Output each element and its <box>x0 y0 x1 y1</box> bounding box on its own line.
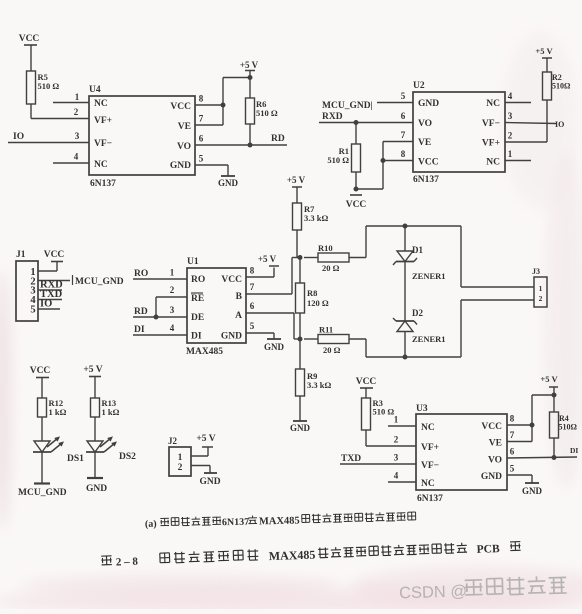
pin 2 wire U1 <box>156 285 187 317</box>
svg-text:+5 V: +5 V <box>287 175 306 185</box>
pin 2 wire U2 <box>505 100 547 142</box>
wire <box>249 124 251 145</box>
svg-text:U4: U4 <box>89 85 101 95</box>
svg-text:ZENER1: ZENER1 <box>412 334 446 344</box>
svg-text:VF+: VF+ <box>421 443 439 453</box>
svg-text:NC: NC <box>94 99 108 109</box>
svg-text:+5 V: +5 V <box>540 374 558 384</box>
wire <box>94 417 96 441</box>
svg-text:4: 4 <box>74 152 79 162</box>
svg-text:3: 3 <box>394 453 399 463</box>
svg-text:8: 8 <box>250 266 255 276</box>
svg-text:VO: VO <box>418 119 432 129</box>
svg-text:6: 6 <box>199 134 204 144</box>
caption (a) 采用高速光耦6N137的MAX485总线通信模块电路原理图 <box>145 512 416 530</box>
wire <box>299 313 301 339</box>
svg-text:5: 5 <box>30 305 35 316</box>
resistor R12 1kΩ <box>38 398 67 417</box>
svg-text:1: 1 <box>75 92 80 102</box>
svg-text:6N137: 6N137 <box>90 179 116 189</box>
junction <box>354 120 359 125</box>
svg-text:GND: GND <box>264 342 285 352</box>
node IO / pin 3 wire <box>8 131 89 143</box>
svg-text:NC: NC <box>421 479 435 489</box>
wire <box>532 395 554 442</box>
junction <box>248 143 253 148</box>
zener D1 <box>393 245 446 281</box>
power +5V (DS2) <box>83 365 102 377</box>
svg-text:RO: RO <box>191 275 205 285</box>
pin 1 stub U2 <box>505 149 531 161</box>
svg-text:2: 2 <box>170 285 175 295</box>
wire <box>41 417 43 441</box>
svg-text:DI: DI <box>134 325 145 335</box>
wire <box>223 78 250 126</box>
resistor R9 3.3kΩ <box>296 369 332 396</box>
svg-text:U1: U1 <box>187 257 199 267</box>
svg-text:7: 7 <box>510 430 515 440</box>
wire <box>94 377 96 399</box>
svg-text:J1: J1 <box>16 250 26 260</box>
node RXD / pin 3 wire J1 <box>38 280 63 291</box>
ground (U1) <box>264 339 285 352</box>
power VCC (below R1) <box>346 195 367 210</box>
pin 2 wire J2 <box>191 466 210 474</box>
wire <box>356 123 383 190</box>
pin 5 wire U4 <box>195 154 228 177</box>
resistor R2 510Ω <box>543 72 572 100</box>
svg-text:20 Ω: 20 Ω <box>323 345 341 355</box>
resistor R1 510Ω <box>327 144 360 172</box>
resistor R3 510Ω <box>362 398 395 430</box>
node RD / pin 6 wire U4 <box>195 134 287 146</box>
svg-text:4: 4 <box>394 471 399 481</box>
junction <box>403 355 408 360</box>
svg-text:R8: R8 <box>307 288 317 298</box>
resistor R6 510Ω <box>246 98 278 124</box>
svg-text:7: 7 <box>401 130 406 140</box>
svg-text:U3: U3 <box>416 404 428 414</box>
resistor R10 20Ω <box>318 243 349 273</box>
node MCU_GND / pin 5 wire U2 <box>322 91 413 111</box>
svg-text:5: 5 <box>250 321 255 331</box>
connector J3 <box>532 267 547 307</box>
wire <box>461 300 534 357</box>
svg-text:VF−: VF− <box>421 461 439 471</box>
pin 2 label U4 <box>74 107 79 117</box>
transceiver U1 MAX485 <box>186 257 246 357</box>
wire <box>366 226 461 258</box>
watermark CSDN @翼达口香糖 <box>399 575 567 602</box>
svg-text:B: B <box>236 292 243 302</box>
svg-text:510Ω: 510Ω <box>552 82 571 91</box>
resistor R5 510Ω <box>27 71 60 104</box>
svg-text:ZENER1: ZENER1 <box>412 271 446 281</box>
svg-text:3.3 kΩ: 3.3 kΩ <box>304 213 328 223</box>
svg-text:3: 3 <box>508 111 513 121</box>
wire <box>365 388 367 398</box>
wire <box>404 332 406 358</box>
junction <box>298 337 303 342</box>
power +5V (R7) <box>287 175 306 203</box>
svg-text:VCC: VCC <box>356 377 377 387</box>
svg-text:3: 3 <box>75 131 80 141</box>
junction <box>248 75 253 80</box>
wire <box>366 339 461 357</box>
power +5V (U4) <box>240 60 259 98</box>
svg-text:GND: GND <box>199 477 220 487</box>
svg-text:6N137: 6N137 <box>222 517 249 529</box>
wire <box>382 142 384 190</box>
svg-text:+5 V: +5 V <box>83 365 102 375</box>
node DI / pin 6 wire U3 <box>507 446 578 458</box>
svg-text:GND: GND <box>86 484 107 494</box>
svg-text:7: 7 <box>199 114 204 124</box>
node TXD / pin 3 wire U3 <box>340 453 416 465</box>
junction <box>354 187 359 192</box>
svg-text:1 kΩ: 1 kΩ <box>102 407 120 417</box>
pin 1 stub U3 <box>388 415 416 427</box>
svg-text:TXD: TXD <box>341 454 361 464</box>
svg-text:D2: D2 <box>412 308 423 318</box>
junction <box>552 393 557 398</box>
svg-text:MAX485: MAX485 <box>269 548 316 564</box>
power +5V (R2) <box>535 46 553 72</box>
svg-text:1: 1 <box>170 268 175 278</box>
svg-text:U2: U2 <box>413 81 425 91</box>
wire <box>299 339 301 369</box>
svg-text:RO: RO <box>134 269 148 279</box>
svg-text:3: 3 <box>170 305 175 315</box>
node IO / pin 5 wire J1 <box>38 299 60 310</box>
svg-text:IO: IO <box>555 120 564 129</box>
wire <box>553 438 555 458</box>
pin 7 wire U4 <box>195 114 223 126</box>
junction <box>403 224 408 229</box>
resistor R13 1kΩ <box>91 398 120 417</box>
LED DS1 <box>33 436 84 464</box>
pin 2 label U3 <box>394 435 399 445</box>
svg-text:1: 1 <box>394 415 399 425</box>
wire <box>30 45 32 71</box>
pin 4 stub U4 <box>53 152 89 164</box>
svg-text:IO: IO <box>13 132 24 142</box>
svg-text:510 Ω: 510 Ω <box>38 81 60 91</box>
svg-text:R11: R11 <box>319 325 333 335</box>
svg-text:+5 V: +5 V <box>535 46 553 56</box>
pin 6 wire U1 to bus A <box>246 301 300 339</box>
LED DS2 <box>86 436 136 462</box>
svg-text:NC: NC <box>94 160 108 170</box>
svg-text:VCC: VCC <box>221 275 242 285</box>
pin 8 wire U4 <box>195 94 223 106</box>
svg-text:GND: GND <box>170 161 191 171</box>
svg-text:1: 1 <box>539 284 543 293</box>
pin 1 wire J1 <box>38 262 57 271</box>
svg-text:VCC: VCC <box>481 422 502 432</box>
power VCC (R3) <box>356 377 377 388</box>
svg-text:VF+: VF+ <box>482 139 500 149</box>
svg-text:2: 2 <box>508 131 513 141</box>
junction <box>298 255 303 260</box>
svg-text:RD: RD <box>134 307 148 317</box>
ground (U3) <box>522 483 543 496</box>
svg-text:VE: VE <box>178 122 191 132</box>
pin 4 stub U2 <box>505 91 531 103</box>
pin 5 wire U3 <box>507 464 532 484</box>
pin 1 wire J2 <box>191 448 208 457</box>
wire <box>94 452 96 478</box>
svg-text:6: 6 <box>510 447 515 457</box>
svg-text:+5 V: +5 V <box>258 254 277 264</box>
svg-text:VF+: VF+ <box>94 116 112 126</box>
svg-text:5: 5 <box>401 91 406 101</box>
svg-text:(a): (a) <box>145 519 157 530</box>
svg-text:3.3 kΩ: 3.3 kΩ <box>307 380 331 390</box>
wire <box>41 452 43 483</box>
svg-text:J3: J3 <box>532 267 540 276</box>
junction <box>221 103 226 108</box>
svg-text:510 Ω: 510 Ω <box>256 108 278 118</box>
svg-text:5: 5 <box>199 154 204 164</box>
node RO / pin 1 wire U1 <box>133 268 187 280</box>
ground (DS2) <box>86 478 107 494</box>
wire <box>404 262 406 322</box>
wire <box>404 226 406 251</box>
svg-text:4: 4 <box>170 323 175 333</box>
svg-text:VE: VE <box>489 439 502 449</box>
wire <box>299 396 301 421</box>
svg-text:VCC: VCC <box>418 158 439 168</box>
svg-text:1: 1 <box>508 149 513 159</box>
svg-text:VCC: VCC <box>19 34 40 44</box>
svg-text:MCU_GND: MCU_GND <box>75 277 124 287</box>
svg-text:6: 6 <box>401 111 406 121</box>
svg-text:8: 8 <box>199 94 204 104</box>
pin 8 wire U1 <box>246 266 274 278</box>
svg-text:IO: IO <box>40 299 52 310</box>
power +5V (J2) <box>196 434 215 447</box>
svg-text:510 Ω: 510 Ω <box>327 155 349 165</box>
svg-text:7: 7 <box>250 282 255 292</box>
wire <box>461 226 534 287</box>
pin 7 wire U3 <box>507 430 532 442</box>
svg-text:VCC: VCC <box>346 200 367 210</box>
svg-text:PCB: PCB <box>476 543 500 556</box>
wire <box>41 378 43 399</box>
ground MCU_GND (DS1) <box>18 484 67 499</box>
power VCC (top-left) <box>19 34 40 45</box>
wire <box>304 338 366 340</box>
node RD / pin 3 wire U1 <box>133 305 187 317</box>
svg-text:MAX485: MAX485 <box>259 515 300 527</box>
svg-text:8: 8 <box>401 149 406 159</box>
svg-text:NC: NC <box>486 158 500 168</box>
svg-text:6N137: 6N137 <box>417 494 443 504</box>
ground (R9) <box>290 421 311 433</box>
pin 7 wire U1 to bus B <box>246 258 300 295</box>
junction <box>154 315 159 320</box>
connector J2 <box>168 436 191 476</box>
svg-text:5: 5 <box>510 464 515 474</box>
svg-text:2 – 8: 2 – 8 <box>116 556 139 569</box>
caption 图2-8 利用高速光耦的MAX485总线通信模块电路原理图和PCB图 <box>101 540 521 569</box>
junction <box>381 158 386 163</box>
node DI / pin 4 wire U1 <box>133 323 187 335</box>
svg-text:GND: GND <box>218 178 239 188</box>
svg-text:NC: NC <box>421 423 435 433</box>
svg-text:A: A <box>235 311 242 321</box>
svg-text:1: 1 <box>178 453 183 463</box>
svg-text:RXD: RXD <box>322 112 343 122</box>
svg-text:MCU_GND|: MCU_GND| <box>322 101 373 111</box>
svg-text:MCU_GND: MCU_GND <box>18 488 67 498</box>
power +5V (U3) <box>540 374 558 395</box>
svg-text:2: 2 <box>74 107 79 117</box>
svg-text:6: 6 <box>250 301 255 311</box>
svg-text:+5 V: +5 V <box>240 60 259 70</box>
pin 4 stub U3 <box>388 471 416 483</box>
svg-text:120 Ω: 120 Ω <box>307 298 329 308</box>
svg-text:DS2: DS2 <box>119 452 136 462</box>
svg-text:8: 8 <box>510 414 515 424</box>
svg-text:VO: VO <box>488 456 502 466</box>
resistor R8 120Ω <box>296 283 329 313</box>
svg-text:GND: GND <box>418 99 439 109</box>
wire <box>304 257 366 259</box>
optocoupler U2 6N137 <box>413 81 505 185</box>
node IO / pin 3 wire U2 <box>505 111 564 129</box>
svg-text:6N137: 6N137 <box>413 175 439 185</box>
svg-text:RE: RE <box>191 294 204 304</box>
svg-text:DE: DE <box>191 313 204 323</box>
svg-text:510Ω: 510Ω <box>559 423 578 432</box>
node RXD / pin 6 wire U2 <box>319 111 413 123</box>
svg-text:MAX485: MAX485 <box>186 347 223 357</box>
junction <box>552 455 557 460</box>
ground (J2) <box>199 473 220 487</box>
pin 7 wire U2 <box>383 130 413 142</box>
svg-text:2: 2 <box>539 294 543 303</box>
svg-text:VF−: VF− <box>482 119 500 129</box>
svg-text:GND: GND <box>290 423 311 433</box>
svg-text:D1: D1 <box>412 245 423 255</box>
optocoupler U3 6N137 <box>416 404 507 504</box>
svg-text:GND: GND <box>221 332 242 342</box>
resistor R7 3.3kΩ <box>293 203 329 230</box>
svg-text:GND: GND <box>481 472 502 482</box>
svg-text:GND: GND <box>522 486 543 496</box>
svg-text:R10: R10 <box>318 243 333 253</box>
svg-text:510 Ω: 510 Ω <box>373 407 395 417</box>
ground (U4) <box>218 176 239 188</box>
wire <box>297 230 300 257</box>
svg-text:4: 4 <box>508 91 513 101</box>
pin 8 wire U3 <box>507 414 532 426</box>
resistor R4 510Ω <box>550 412 578 438</box>
power VCC (DS1) <box>30 366 51 378</box>
power VCC (J1) <box>44 250 65 262</box>
resistor R11 20Ω <box>318 325 349 356</box>
svg-text:20 Ω: 20 Ω <box>322 263 340 273</box>
svg-text:2: 2 <box>394 435 399 445</box>
svg-text:VCC: VCC <box>44 250 65 260</box>
wire <box>553 395 555 412</box>
pin 1 stub U4 <box>53 92 89 103</box>
svg-text:RD: RD <box>271 134 285 144</box>
pin 8 wire U2 <box>383 149 413 161</box>
svg-text:DI: DI <box>570 446 578 455</box>
junction <box>530 423 535 428</box>
svg-text:NC: NC <box>486 99 500 109</box>
power +5V (U1) <box>258 254 279 266</box>
svg-text:J2: J2 <box>168 436 178 446</box>
wire <box>31 104 89 119</box>
pin 5 wire U1 <box>246 321 274 339</box>
svg-text:VE: VE <box>418 138 431 148</box>
svg-text:DS1: DS1 <box>67 454 84 464</box>
optocoupler U4 6N137 <box>89 85 195 189</box>
svg-text:1 kΩ: 1 kΩ <box>49 407 67 417</box>
svg-text:CSDN @: CSDN @ <box>399 582 468 602</box>
wire <box>299 257 301 283</box>
zener D2 <box>393 308 446 344</box>
connector J1 <box>16 250 38 321</box>
svg-text:VCC: VCC <box>30 366 51 376</box>
svg-text:VCC: VCC <box>170 102 191 112</box>
svg-text:VF−: VF− <box>94 139 112 149</box>
svg-text:+5 V: +5 V <box>196 434 215 444</box>
node TXD / pin 4 wire J1 <box>38 289 63 300</box>
node MCU_GND / pin 2 wire J1 <box>38 275 124 287</box>
svg-text:DI: DI <box>191 332 202 342</box>
wire <box>366 430 416 446</box>
svg-text:2: 2 <box>178 463 183 473</box>
svg-text:VO: VO <box>177 142 191 152</box>
